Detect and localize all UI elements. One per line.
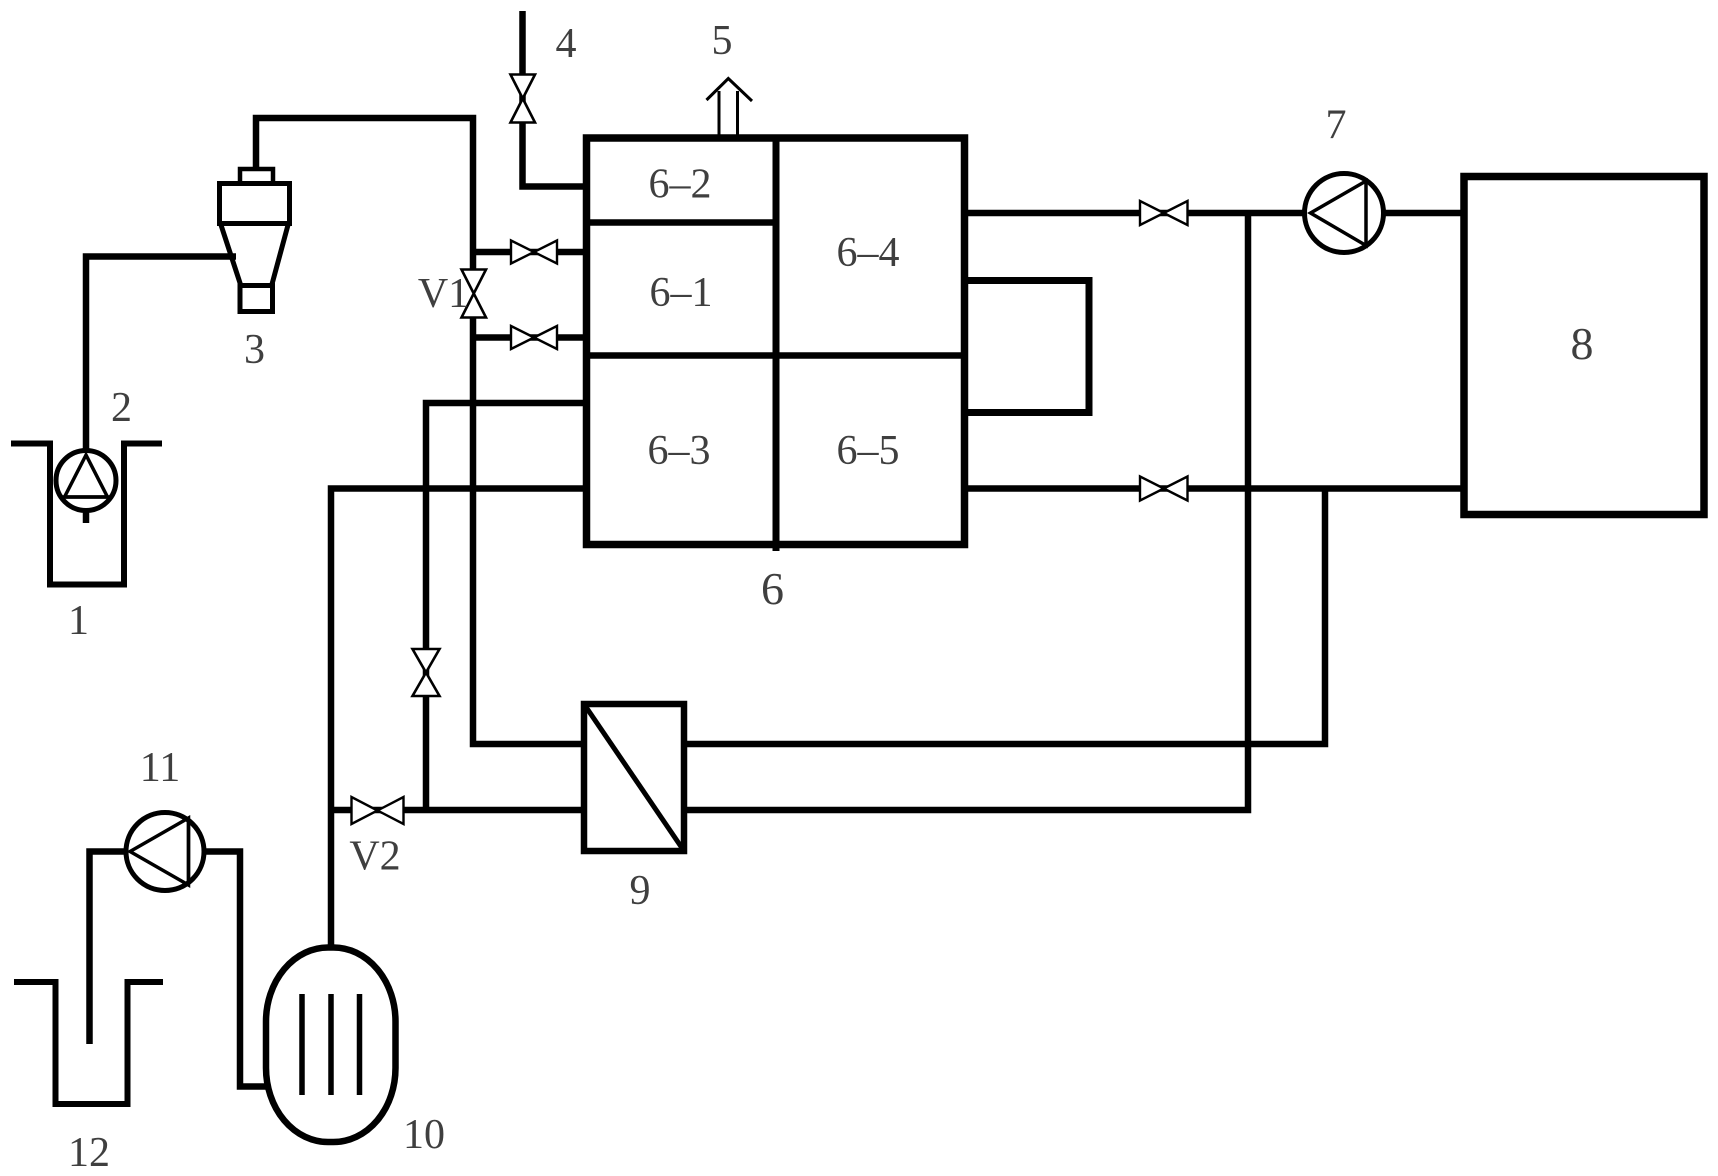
wire pump 11 discharge to tank 10 — [204, 852, 267, 1087]
tank 12 — [14, 982, 163, 1104]
wire pump 2 bottom stub — [83, 511, 90, 524]
svg-text:V1: V1 — [418, 271, 469, 317]
valve 4 (vertical) — [511, 75, 536, 123]
valve V2 — [352, 797, 404, 824]
wire cyclone 3 to pump 2 — [86, 257, 236, 453]
cyclone 3 bottom stub — [240, 286, 273, 312]
svg-text:6–1: 6–1 — [650, 270, 713, 316]
filter 9 diagonal — [586, 707, 682, 848]
svg-text:6–3: 6–3 — [648, 428, 711, 474]
tank 10 vessel — [266, 948, 396, 1143]
pump 2 triangle — [65, 455, 108, 497]
valve on riser x426 (vertical) — [413, 649, 440, 696]
valve V1 (vertical) — [462, 270, 487, 318]
pump 11 chord — [187, 820, 191, 883]
wire branch with valve into 6-1 lower — [473, 334, 586, 341]
vent arrow 5 head — [707, 79, 753, 102]
box 8 — [1464, 177, 1704, 515]
svg-text:6: 6 — [761, 563, 784, 614]
valve on lower outlet line — [1140, 477, 1188, 501]
wire into 6-3 lower down to tank 10 — [331, 489, 586, 948]
svg-text:8: 8 — [1571, 318, 1594, 369]
pump 7 circle — [1305, 174, 1384, 253]
wire feed line 4 down into box 6 — [523, 11, 587, 187]
wire pump 11 suction into tank 12 — [90, 852, 128, 1045]
svg-text:3: 3 — [244, 327, 265, 373]
svg-text:11: 11 — [140, 745, 180, 791]
wire filter 9 right upper to riser joining lower outlet line — [684, 489, 1325, 745]
pump 2 chord — [62, 495, 111, 499]
divider between 6-2 and 6-1 — [587, 219, 780, 226]
wire box 6 lower outlet to box 8 — [964, 485, 1464, 492]
svg-text:12: 12 — [68, 1130, 110, 1176]
svg-text:4: 4 — [556, 21, 577, 67]
pump 11 circle — [126, 813, 204, 891]
valve on branch into 6-1 upper — [511, 241, 557, 264]
wire branch with valve into 6-1 upper — [473, 249, 586, 256]
valve on branch into 6-1 lower — [511, 326, 557, 349]
filter 9 box — [584, 704, 684, 851]
vent arrow 5 shaft — [719, 91, 738, 135]
cyclone 3 body — [220, 184, 290, 224]
svg-text:9: 9 — [630, 868, 651, 914]
cyclone 3 funnel sides — [221, 225, 288, 286]
svg-text:6–2: 6–2 — [649, 162, 712, 208]
unit 6 center divider — [773, 138, 780, 551]
pump 11 triangle — [130, 818, 189, 885]
tank 10 internals — [302, 994, 360, 1095]
valve on upper outlet line — [1140, 201, 1188, 225]
wire from cyclone 3 top to V1 riser — [256, 118, 473, 272]
svg-text:10: 10 — [403, 1112, 445, 1158]
svg-text:1: 1 — [68, 598, 89, 644]
cyclone 3 top stub — [240, 169, 273, 184]
svg-text:5: 5 — [712, 18, 733, 64]
wire into 6-3 upper from valve riser — [426, 403, 586, 810]
wire box 6 upper outlet to pump 7 to box 8 — [964, 210, 1464, 217]
svg-text:6–4: 6–4 — [837, 230, 900, 276]
pump 2 circle — [56, 451, 116, 511]
divider between 6-1/6-3 and 6-4/6-5 — [587, 352, 965, 359]
svg-text:2: 2 — [111, 385, 132, 431]
svg-text:V2: V2 — [349, 834, 400, 880]
tank 1 — [11, 444, 162, 585]
wire filter 9 right to riser and pump 7 suction line — [684, 213, 1248, 810]
svg-text:7: 7 — [1326, 103, 1347, 149]
pump 7 triangle — [1311, 181, 1367, 246]
svg-text:6–5: 6–5 — [837, 428, 900, 474]
wire V1 riser lower segment down and to filter 9 left — [473, 315, 584, 744]
wire V2 line from node to filter 9 left — [331, 807, 584, 814]
bracket duct on right of unit 6 — [965, 281, 1090, 413]
unit 6 outer box — [587, 138, 965, 545]
